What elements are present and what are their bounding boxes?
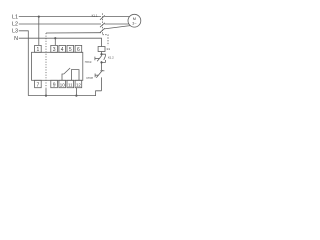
wire bottom return	[28, 91, 101, 96]
terminal 5	[67, 45, 74, 52]
terminal 12	[75, 80, 82, 87]
terminal 3	[51, 45, 58, 52]
wire third pole after contact to motor	[104, 26, 130, 29]
wire L2 after contact to motor	[104, 23, 129, 25]
button PUSK blade	[97, 56, 102, 62]
terminal 1	[35, 45, 42, 52]
wire L1 horizontal	[19, 16, 101, 18]
svg-text:М: М	[133, 16, 136, 21]
svg-text:5: 5	[69, 47, 72, 53]
terminal 9	[51, 80, 58, 87]
wire phase tap to third contactor pole	[46, 32, 101, 34]
button PUSK actuator	[95, 57, 99, 59]
svg-text:6: 6	[77, 47, 80, 53]
relay device box U1	[32, 52, 83, 80]
node junction dot start node	[100, 61, 102, 63]
node junction dot below coil	[100, 53, 102, 55]
wire L1 after contact to motor	[104, 16, 129, 18]
contactor K1.1 blade pole 2	[100, 23, 105, 27]
node junction dot on N	[54, 37, 56, 39]
svg-text:4: 4	[61, 47, 64, 53]
contactor K1.1 blade pole 3	[100, 28, 105, 32]
terminal 10	[59, 80, 66, 87]
terminal 6	[75, 45, 82, 52]
coil K1 box	[98, 47, 105, 52]
wire parallel branch top	[102, 54, 106, 56]
wire between buttons	[101, 61, 103, 70]
terminal 4	[59, 45, 66, 52]
node junction dot on L1	[38, 16, 40, 18]
svg-text:12: 12	[76, 82, 81, 87]
svg-text:9: 9	[53, 82, 56, 88]
relay internal contact blade	[64, 68, 70, 74]
svg-text:3: 3	[53, 47, 56, 53]
button STOP seat	[100, 70, 104, 72]
svg-text:3~: 3~	[132, 21, 136, 25]
contactor mechanical link dashed	[102, 13, 104, 34]
button STOP actuator	[95, 74, 98, 76]
svg-text:1: 1	[37, 47, 40, 53]
motor M1 circle	[128, 14, 141, 27]
svg-text:К1.1: К1.1	[92, 14, 98, 18]
wire dashed link to coil	[103, 35, 109, 46]
terminal 7	[35, 80, 42, 87]
svg-text:L2: L2	[12, 22, 18, 28]
node junction dot bottom wire at terminal 8	[45, 95, 47, 97]
wire N drop to terminal 3	[54, 38, 56, 45]
wire K1.2 bottom branch	[102, 60, 106, 62]
svg-text:N: N	[14, 36, 18, 42]
wire terminal 12 drop to bottom wire	[75, 88, 77, 96]
wire terminal 8 stub to bottom wire	[45, 88, 47, 95]
svg-text:К1: К1	[107, 47, 111, 51]
node junction dot bottom wire at terminal 12	[75, 95, 77, 97]
wire dashed terminal 2 to terminal 8 vertical	[45, 33, 47, 88]
svg-text:7: 7	[37, 82, 40, 88]
svg-text:10: 10	[60, 82, 65, 87]
wire L3 horizontal with bend down	[19, 31, 29, 96]
svg-text:L1: L1	[12, 14, 18, 20]
relay internal contact bracket 11-12	[71, 70, 79, 81]
svg-text:К1.2: К1.2	[108, 56, 114, 60]
wire L1 drop to terminal 1	[38, 17, 40, 46]
svg-text:СТОП: СТОП	[86, 77, 93, 80]
svg-text:L3: L3	[12, 29, 18, 35]
wire L2 horizontal	[19, 23, 101, 25]
contactor K1.1 blade pole 1	[100, 15, 105, 19]
wire coil bottom to start node	[101, 52, 103, 56]
contact K1.2 blade	[104, 56, 106, 60]
button STOP blade	[96, 70, 102, 78]
svg-text:11: 11	[68, 82, 73, 87]
wire STOP to bottom return	[101, 77, 103, 90]
wire N horizontal to coil	[19, 38, 102, 46]
terminal 11	[67, 80, 74, 87]
svg-text:ПУСК: ПУСК	[85, 61, 92, 64]
relay internal contact stub	[62, 74, 64, 80]
